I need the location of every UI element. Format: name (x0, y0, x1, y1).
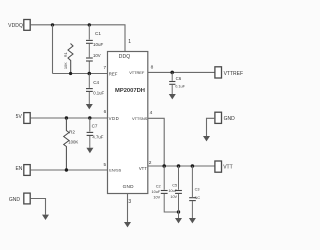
svg-text:C5: C5 (172, 184, 177, 188)
wire VDDQ branch down to REF wire (52, 25, 54, 74)
terminal VTTREF (215, 67, 243, 78)
capacitor C4 (86, 74, 105, 105)
terminal VDDQ (8, 20, 30, 31)
svg-text:0.1uF: 0.1uF (93, 90, 104, 95)
capacitor C7 (87, 118, 104, 148)
svg-text:1: 1 (128, 39, 131, 45)
ground under C6 (169, 94, 176, 99)
svg-text:C7: C7 (92, 123, 98, 128)
svg-text:REF: REF (109, 71, 118, 76)
wire GND pin to ground (127, 194, 129, 223)
svg-text:6: 6 (104, 109, 107, 114)
svg-text:NC: NC (195, 196, 201, 200)
terminal 5V (16, 113, 31, 124)
svg-text:5: 5 (103, 162, 106, 167)
ground under chip GND (124, 222, 131, 227)
wire REF horizontal (53, 73, 108, 75)
node junction C1/C4 on REF wire (88, 72, 92, 76)
svg-text:2: 2 (149, 160, 152, 166)
capacitor C2 (152, 166, 179, 212)
node junction C7 top (88, 116, 91, 119)
svg-text:MP2007DH: MP2007DH (115, 88, 145, 94)
svg-text:R1: R1 (63, 52, 68, 57)
svg-text:C3: C3 (195, 187, 200, 191)
svg-text:C4: C4 (93, 80, 99, 85)
ground under GND right (203, 136, 210, 141)
svg-text:GND: GND (9, 197, 21, 203)
svg-text:EN/SS: EN/SS (109, 168, 121, 173)
ground under C5 (175, 218, 182, 223)
node junction R1 on REF wire (69, 72, 72, 75)
wire VTTSNS to VTT rail (148, 118, 164, 166)
capacitor C3 (189, 166, 200, 218)
svg-text:7: 7 (103, 65, 106, 70)
svg-text:VTTSNS: VTTSNS (132, 116, 148, 121)
svg-text:VDDQ: VDDQ (8, 23, 23, 29)
svg-text:10V: 10V (170, 195, 177, 199)
svg-text:10uF: 10uF (168, 189, 177, 193)
svg-text:VTTREF: VTTREF (129, 70, 145, 75)
wire GND right to ground (207, 118, 215, 136)
wire 5V to VDD pin (30, 117, 107, 119)
resistor R1 (63, 44, 73, 74)
ground under C4 (86, 104, 93, 109)
capacitor C1 (86, 25, 104, 74)
node junction VTTSNS/C2 (162, 164, 166, 168)
node junction C5 (177, 164, 181, 168)
svg-text:VTTREF: VTTREF (224, 71, 243, 77)
svg-text:0.1uF: 0.1uF (175, 84, 185, 88)
svg-text:10uF: 10uF (152, 190, 161, 194)
capacitor C6 (169, 72, 185, 94)
svg-text:VTT: VTT (139, 166, 147, 171)
ground under C3 (189, 218, 196, 223)
svg-text:8: 8 (151, 65, 154, 71)
IC U1 MP2007DH body (108, 52, 148, 194)
node junction C2/C5 bottom (177, 210, 180, 213)
wire VTT output (148, 165, 215, 167)
svg-text:VDD: VDD (109, 116, 120, 121)
wire EN to chip (30, 169, 107, 171)
svg-text:GND: GND (224, 116, 236, 122)
node junction on rail at x89 (88, 23, 91, 26)
svg-text:4: 4 (150, 110, 153, 116)
wire GND left to ground (30, 199, 45, 215)
svg-text:R2: R2 (69, 129, 75, 134)
node junction C3 (191, 164, 195, 168)
terminal GND left (9, 193, 30, 204)
svg-text:DDQ: DDQ (119, 54, 130, 60)
capacitor C5 (168, 166, 181, 218)
terminal GND right (215, 112, 235, 123)
node junction C6 on VTTREF wire (170, 71, 174, 75)
terminal VTT (215, 161, 233, 172)
svg-text:4.7uF: 4.7uF (92, 135, 103, 140)
svg-text:C1: C1 (95, 31, 101, 36)
svg-text:C6: C6 (176, 76, 182, 81)
wire VDDQ rail (30, 25, 125, 52)
node junction R2 top (65, 116, 68, 119)
svg-text:3: 3 (128, 199, 131, 205)
svg-text:GND: GND (123, 184, 134, 189)
svg-text:C2: C2 (156, 184, 161, 188)
terminal EN (15, 165, 30, 176)
svg-text:EN: EN (15, 166, 22, 172)
node junction R2 bottom on EN wire (65, 168, 68, 171)
ground bottom-left (42, 215, 49, 220)
svg-text:100K: 100K (68, 139, 78, 144)
svg-text:10uF: 10uF (93, 42, 104, 47)
node junction on rail at x52 (51, 23, 54, 26)
wire VTTREF output (148, 71, 215, 73)
resistor R2 (64, 118, 79, 170)
svg-text:VTT: VTT (223, 165, 232, 171)
svg-text:10V: 10V (93, 53, 101, 58)
svg-text:10V: 10V (153, 195, 160, 199)
ground under C7 (86, 148, 93, 153)
svg-text:10K: 10K (63, 62, 68, 69)
svg-text:5V: 5V (16, 114, 23, 120)
